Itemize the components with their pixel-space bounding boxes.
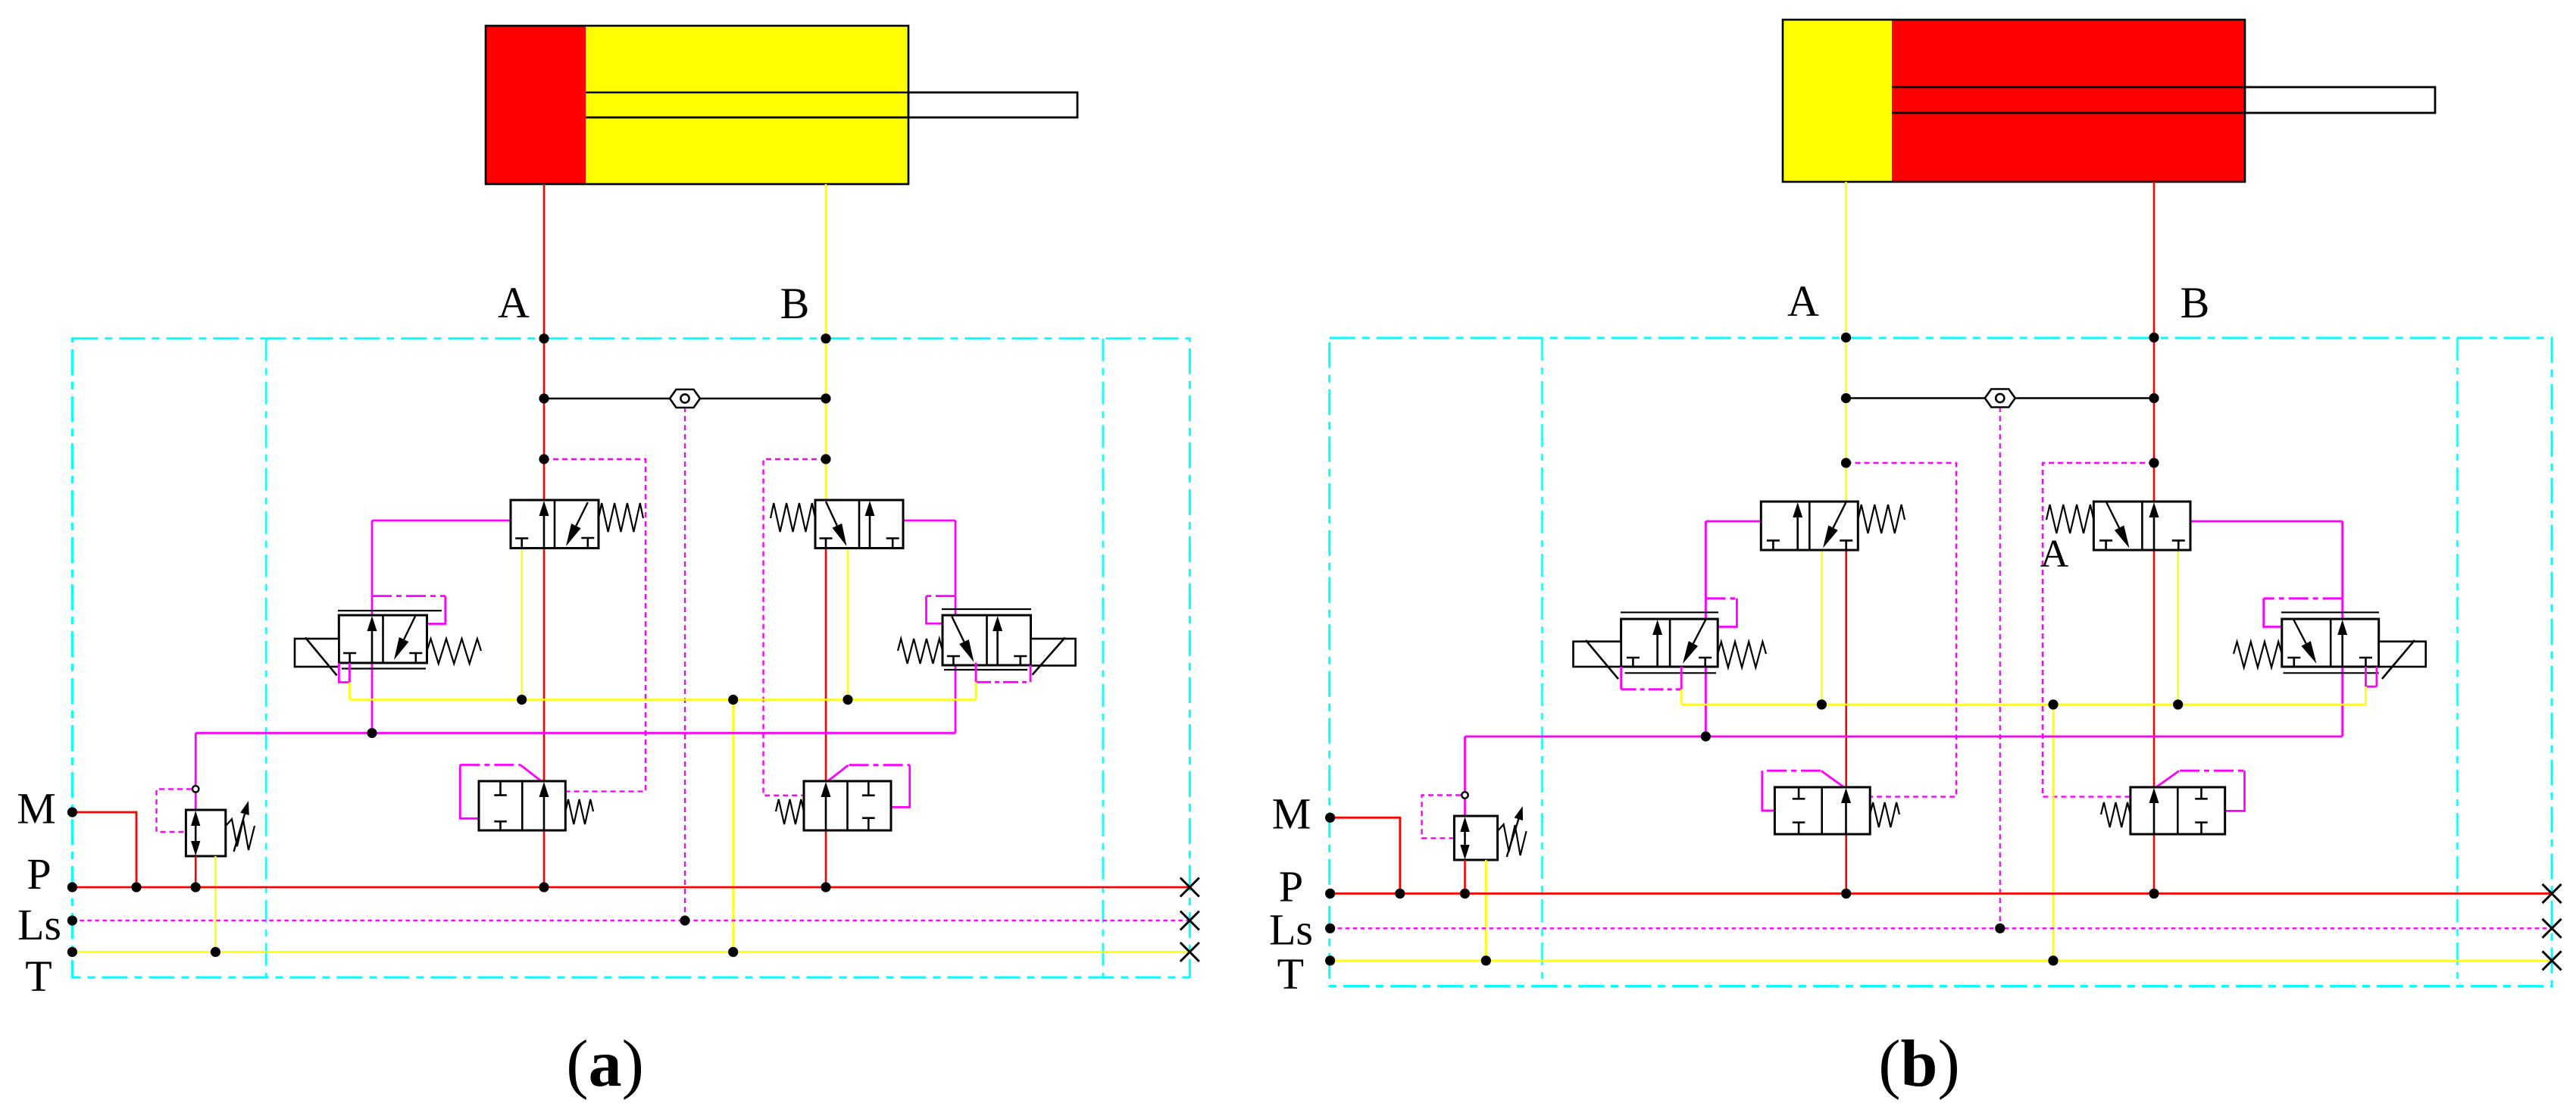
T port line yellow (a) <box>72 951 1190 953</box>
svg-text:P: P <box>1279 862 1303 911</box>
check valve CVbR pilot frame magenta (b) <box>2154 771 2179 789</box>
relief valve RV2 double arrow <box>1464 830 1466 847</box>
prop valve PV1 spring <box>427 639 482 664</box>
relief valve RV2 pilot dashed frame <box>1422 796 1461 839</box>
valve V2 3/2 body (a) <box>815 500 903 549</box>
check valve CVbL seat symbols <box>1798 787 1800 799</box>
cylinder (a) barrel outline <box>486 26 908 184</box>
prop valve PVbL body (b) <box>1621 619 1718 667</box>
shuttle valve line (b) <box>1846 397 2155 399</box>
pilot wire magenta long right (b) <box>2341 521 2343 736</box>
wire A-side red below valve (b) <box>1845 550 1847 893</box>
valve VbL 3/2 body (b) <box>1761 502 1858 550</box>
check valve CV1 flow arrow <box>543 796 546 830</box>
cylinder (b) piston rod inside <box>1892 86 2245 88</box>
junction nodes (b) <box>1841 333 1851 342</box>
prop valve PVbR upper parallel line (b) <box>2281 611 2379 613</box>
prop valve PV2 blocked port right <box>1014 655 1027 658</box>
pilot line valve VbR to right (b) <box>2190 520 2343 523</box>
enclosure (a) outer cyan dash-dot border <box>72 339 1190 977</box>
svg-text:(b): (b) <box>1878 1027 1960 1101</box>
prop valve PVbL yellow drain stub <box>1680 689 1683 705</box>
cylinder (a) piston rod inside <box>586 92 908 93</box>
prop valve PV1 flow arrow <box>371 630 374 663</box>
prop valve PVbR blocked port right <box>2359 657 2372 659</box>
magenta manifold M1 (b) <box>1465 736 2343 738</box>
prop valve PV2 lower parallel line (a) <box>944 669 1027 671</box>
check valve CVbL pilot frame magenta (b) <box>1821 771 1846 789</box>
tank wire yellow from valve2 (a) <box>847 549 849 702</box>
M port wire red (a) <box>72 812 136 887</box>
junction nodes (a) <box>539 333 549 343</box>
relief valve RV1 spring <box>226 819 255 850</box>
relief valve RV2 yellow drain to T <box>1485 860 1487 961</box>
prop valve PV2 yellow drain stub <box>975 682 977 699</box>
prop valve PV2 solenoid <box>1031 639 1076 666</box>
valve VbL blocked port T right <box>1840 539 1852 542</box>
svg-text:A: A <box>498 278 530 327</box>
tank wire yellow from valve1 (a) <box>521 549 523 702</box>
valve V2 blocked port T right <box>886 537 899 539</box>
svg-text:Ls: Ls <box>17 900 61 949</box>
svg-text:Ls: Ls <box>1269 905 1313 955</box>
svg-text:M: M <box>17 784 56 833</box>
check valve CVbR seat symbols <box>2200 787 2202 799</box>
cylinder (a) red chamber <box>486 26 586 184</box>
prop valve PVbR pilot U magenta <box>2365 667 2367 686</box>
prop valve PV1 lower parallel line (a) <box>342 667 426 669</box>
check valve CV2 spring <box>776 799 804 824</box>
Ls port line magenta dashed (b) <box>1330 927 2553 929</box>
check valve CV2 body (a) <box>804 781 891 830</box>
valve V2 diagonal arrow <box>826 502 837 526</box>
cylinder (b) piston rod outside <box>2245 87 2435 113</box>
prop valve PVbL blocked port right <box>1699 657 1712 659</box>
prop valve PV1 solenoid <box>295 639 339 667</box>
P port line red (a) <box>72 886 1190 889</box>
valve VbL diagonal arrow <box>1834 502 1846 528</box>
shuttle valve drain dashed to Ls (b) <box>1999 407 2001 928</box>
check valve CV2 seat symbols <box>868 781 870 796</box>
svg-text:P: P <box>27 849 51 899</box>
prop valve PVbR yellow drain stub <box>2365 686 2367 705</box>
pilot wire magenta long left (a) <box>371 520 374 733</box>
svg-text:B: B <box>780 279 810 328</box>
relief valve RV1 vent circle <box>192 786 199 792</box>
prop valve PVbL pilot U magenta <box>1620 667 1622 689</box>
prop valve PVbL lower parallel line (b) <box>1625 672 1716 674</box>
relief valve RV2 red drop to P <box>1464 860 1466 893</box>
prop valve PVbR flow arrow <box>2341 633 2343 667</box>
prop valve PVbR blocked port left <box>2287 657 2300 659</box>
valve V2 spring <box>771 503 815 532</box>
svg-text:M: M <box>1272 789 1311 839</box>
prop valve PV2 diagonal arrow <box>952 617 964 642</box>
shuttle valve body (b) <box>1985 389 2015 408</box>
plugged port X marks (a) <box>1180 878 1199 897</box>
valve VbR spring <box>2046 505 2093 533</box>
cylinder (b) barrel outline <box>1783 20 2245 182</box>
cylinder (a) yellow chamber <box>586 26 908 184</box>
relief valve RV2 magenta riser (b) <box>1464 736 1466 792</box>
enclosure (b) inner cyan line left <box>1541 338 1543 986</box>
wire A red vertical (a) <box>543 184 546 887</box>
valve VbR blocked port T right <box>2172 539 2185 542</box>
check valve CVbR spring <box>2101 802 2131 827</box>
check valve CV1 body (a) <box>479 781 565 830</box>
prop valve PV2 spring <box>898 639 943 664</box>
shuttle valve line (a) <box>544 398 826 400</box>
cylinder (b) red chamber <box>1892 20 2245 182</box>
prop valve PVbR spring <box>2234 642 2282 667</box>
valve VbR 3/2 body (b) <box>2093 502 2190 550</box>
svg-text:A: A <box>2040 533 2069 576</box>
pilot dashed from node B to check valve right (b) <box>2043 463 2154 797</box>
valve V1 diagonal arrow <box>576 502 587 526</box>
magenta manifold M1 (a) <box>195 732 955 734</box>
enclosure (a) inner cyan line left <box>265 339 267 977</box>
relief valve RV2 adjust arrow <box>1507 819 1519 857</box>
relief valve RV1 red drop to P <box>195 856 197 887</box>
valve V1 3/2 body (a) <box>511 500 599 549</box>
tank wire yellow from valve VbR (b) <box>2177 550 2179 705</box>
prop valve PV2 body (a) <box>943 615 1031 665</box>
pilot branch to prop valve left (b) <box>1705 597 1737 599</box>
valve V1 flow arrow <box>543 514 546 549</box>
wire B red vertical (b) <box>2153 182 2156 893</box>
enclosure (b) inner cyan line right <box>2456 338 2458 986</box>
enclosure (a) inner cyan line right <box>1102 339 1103 977</box>
relief valve RV2 spring <box>1498 824 1527 855</box>
valve V2 blocked port T left <box>820 537 833 539</box>
check valve CVbR body (b) <box>2131 787 2225 834</box>
prop valve PV2 pilot U magenta <box>975 663 977 683</box>
prop valve PVbR solenoid <box>2379 642 2426 667</box>
valve VbR flow arrow <box>2153 516 2156 550</box>
pilot branch to prop valve right (b) <box>2264 597 2343 599</box>
prop valve PVbL blocked port left <box>1627 657 1640 659</box>
relief valve RV2 body <box>1454 816 1497 860</box>
pilot dashed from node B to check valve right (a) <box>764 459 827 796</box>
prop valve PV1 diagonal arrow <box>404 617 415 640</box>
valve VbR diagonal arrow <box>2106 502 2119 528</box>
prop valve PVbR lower parallel line (b) <box>2284 672 2379 674</box>
pilot dashed from node A to check valve left (a) <box>544 459 646 792</box>
svg-text:T: T <box>1277 949 1304 999</box>
pilot line valve2 to right (a) <box>903 520 955 522</box>
valve V2 flow arrow <box>869 514 871 549</box>
P port line red (b) <box>1330 892 2553 895</box>
check valve CV1 seat symbols <box>499 781 502 796</box>
prop valve PV1 body (a) <box>339 615 427 663</box>
prop valve PV1 blocked port left <box>343 652 356 655</box>
relief valve RV1 magenta riser (a) <box>195 733 197 786</box>
valve VbR blocked port T left <box>2099 539 2112 542</box>
check valve CV2 pilot frame magenta (a) <box>826 765 849 783</box>
check valve CV1 spring <box>565 799 593 824</box>
yellow drop to T line (a) <box>732 700 734 952</box>
prop valve PV2 flow arrow <box>996 630 999 665</box>
wire A yellow vertical (b) <box>1845 182 1847 502</box>
valve VbL spring <box>1858 505 1905 533</box>
prop valve PVbR body (b) <box>2282 619 2379 667</box>
relief valve RV1 double arrow <box>195 824 197 842</box>
yellow manifold Y1 (a) <box>349 699 976 701</box>
cylinder (a) piston rod outside <box>908 92 1077 117</box>
check valve CVbL spring <box>1870 802 1899 827</box>
pilot wire magenta long left (b) <box>1705 521 1707 736</box>
enclosure (b) outer cyan dash-dot border <box>1330 338 2552 986</box>
relief valve RV2 vent circle <box>1462 792 1468 798</box>
valve V1 blocked port T left <box>515 537 528 539</box>
relief valve RV1 pilot dashed frame <box>157 789 192 832</box>
T port line yellow (b) <box>1330 960 2553 962</box>
prop valve PVbR diagonal arrow <box>2293 620 2306 644</box>
prop valve PVbL flow arrow <box>1656 633 1658 667</box>
prop valve PVbL upper parallel line (b) <box>1621 611 1718 613</box>
valve V1 spring <box>599 503 643 532</box>
prop valve PV1 yellow drain stub <box>349 683 351 700</box>
pilot line valve VbL to left (b) <box>1705 520 1761 523</box>
prop valve PV1 upper parallel line (a) <box>338 610 442 611</box>
valve VbL flow arrow <box>1796 516 1799 550</box>
M port wire red (b) <box>1330 817 1400 893</box>
shuttle valve drain dashed to Ls (a) <box>684 407 686 921</box>
shuttle valve body (a) <box>670 389 700 408</box>
prop valve PVbL solenoid <box>1574 642 1621 667</box>
svg-text:B: B <box>2181 278 2210 327</box>
prop valve PV2 blocked port left <box>947 655 960 658</box>
check valve CVbL body (b) <box>1774 787 1870 834</box>
pilot branch to prop valve left (a) <box>372 595 445 597</box>
prop valve PV2 upper parallel line (a) <box>942 608 1031 610</box>
prop valve PV1 blocked port right <box>409 652 422 655</box>
wire B-side red below valve (a) <box>825 549 827 887</box>
check valve CV1 pilot frame magenta (a) <box>460 765 479 819</box>
cylinder (b) yellow chamber <box>1783 20 1892 182</box>
Ls port line magenta dashed (a) <box>72 920 1190 921</box>
tank wire yellow from valve VbL (b) <box>1821 550 1823 705</box>
prop valve PVbL diagonal arrow <box>1693 620 1706 644</box>
wire B yellow vertical upper (a) <box>825 184 827 502</box>
prop valve PVbL spring <box>1718 642 1766 667</box>
svg-text:A: A <box>1787 277 1819 326</box>
check valve CVbL flow arrow <box>1845 802 1847 834</box>
check valve CV2 flow arrow <box>825 796 827 830</box>
pilot wire magenta long right (a) <box>955 520 957 733</box>
prop valve PV1 pilot U magenta <box>339 663 349 683</box>
pilot branch to prop valve right (a) <box>927 595 956 597</box>
pilot line valve1 to left (a) <box>372 520 511 522</box>
relief valve RV1 adjust arrow <box>234 814 245 852</box>
svg-text:(a): (a) <box>566 1027 644 1101</box>
valve VbL blocked port T left <box>1767 539 1780 542</box>
pilot dashed from node A to check valve left (b) <box>1846 463 1957 797</box>
check valve CVbR flow arrow <box>2153 802 2156 834</box>
plugged port X marks (b) <box>2543 884 2562 903</box>
yellow manifold Y1 (b) <box>1681 704 2365 706</box>
relief valve RV1 body <box>186 810 225 856</box>
svg-text:T: T <box>25 952 52 1001</box>
relief valve RV1 yellow drain to T <box>214 856 217 952</box>
valve V1 blocked port T right <box>581 537 594 539</box>
yellow drop to T line (b) <box>2052 705 2055 961</box>
